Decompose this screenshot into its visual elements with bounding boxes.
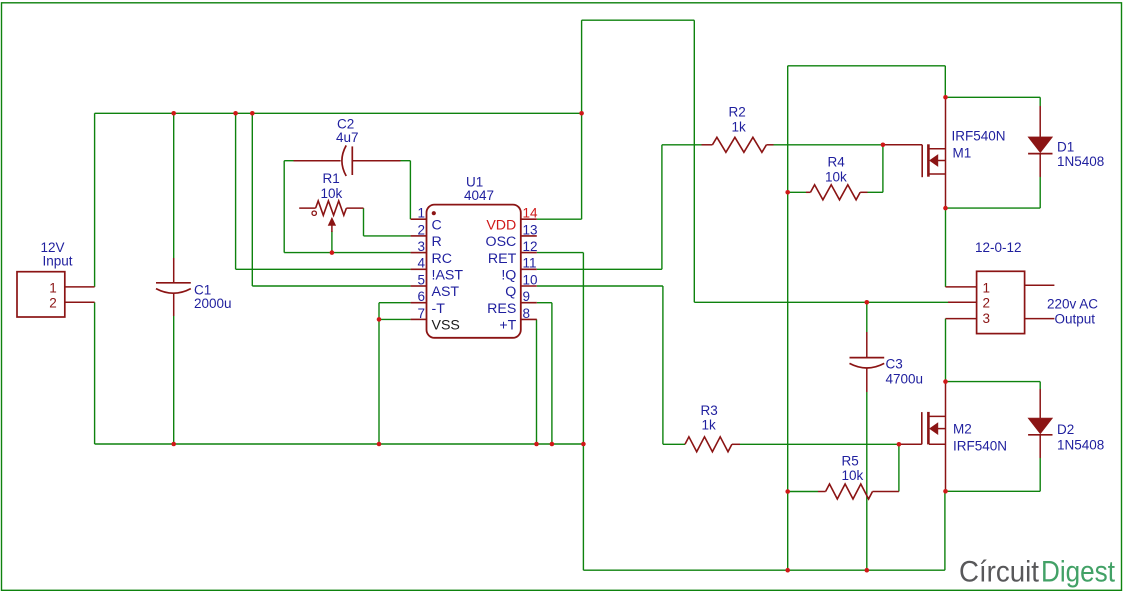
junction node J15 [943, 206, 948, 211]
svg-text:2: 2 [417, 222, 425, 237]
transistor M2 arrow [930, 423, 938, 435]
wire pin14 VDD riser [537, 218, 582, 220]
svg-text:C2: C2 [337, 116, 354, 131]
wire drain rail R4 R5 column [787, 66, 789, 570]
transistor M2 gate lead [899, 443, 922, 445]
svg-text:4: 4 [417, 256, 425, 271]
wire C1 bottom [173, 316, 175, 444]
resistor R4 right lead [860, 191, 867, 193]
connector P1 12V input box [17, 272, 65, 317]
svg-text:12: 12 [523, 239, 538, 254]
connector P1 pin 2 stub [65, 301, 95, 303]
junction node J12 [785, 190, 790, 195]
wire C3 column [866, 302, 868, 332]
wire pin7 to ground [379, 318, 411, 320]
capacitor C3 bottom lead [866, 368, 868, 392]
wire pin8 down to ground [536, 319, 538, 444]
svg-text:10: 10 [523, 272, 538, 287]
transistor M1 gate lead [883, 144, 922, 146]
pin 14 stub [521, 218, 537, 220]
resistor R5 body [826, 484, 873, 499]
diode D1 cathode lead [1039, 154, 1041, 177]
wire lower ground rail [583, 569, 945, 571]
junction node J6 [377, 317, 382, 322]
svg-text:+T: +T [499, 318, 516, 334]
wire pin4 to rail [235, 113, 237, 269]
wire C2 left loop to pin3 [284, 160, 293, 162]
wire R5 left lead [788, 491, 818, 493]
svg-text:5: 5 [417, 272, 425, 287]
svg-text:10k: 10k [825, 169, 847, 184]
junction node J19 [785, 489, 790, 494]
wire pin10 to R3 [537, 285, 663, 287]
svg-text:10k: 10k [321, 186, 343, 201]
wire transformer pin3 to M2 drain [945, 319, 947, 382]
svg-text:C: C [432, 217, 442, 233]
junction node J7 [171, 442, 176, 447]
svg-text:2: 2 [982, 296, 990, 311]
svg-text:D2: D2 [1057, 422, 1074, 437]
svg-text:OSC: OSC [486, 234, 517, 250]
svg-text:4u7: 4u7 [336, 130, 359, 145]
svg-text:-T: -T [432, 301, 446, 317]
svg-text:1: 1 [49, 280, 57, 295]
transistor M2 drain stub [929, 415, 945, 417]
wire top loop over to transformer center tap [581, 20, 583, 113]
junction node J4 [579, 111, 584, 116]
connector T1 output stub top [1025, 284, 1055, 286]
IC U1 pin1 marker [432, 211, 436, 215]
wire M1 drain top link [788, 65, 946, 67]
svg-text:M1: M1 [953, 145, 972, 160]
capacitor C2 left lead [294, 160, 341, 162]
junction node J13 [881, 143, 886, 148]
pin 8 stub [521, 318, 537, 320]
pin 2 stub [411, 235, 427, 237]
transistor M2 gate bar [921, 412, 923, 444]
resistor R5 left lead [818, 491, 826, 493]
diode D1 cathode bar [1028, 153, 1052, 155]
wire M2 source to lower rail [945, 490, 947, 492]
svg-text:8: 8 [523, 306, 531, 321]
svg-text:1N5408: 1N5408 [1057, 437, 1104, 452]
connector P1 pin 1 stub [65, 286, 95, 288]
wire D2 loop top [946, 381, 1041, 383]
potentiometer R1 left lead [299, 207, 315, 209]
junction node J14 [943, 95, 948, 100]
pin 13 stub [521, 235, 537, 237]
wire D1 loop bottom [1039, 177, 1041, 208]
junction node J1 [171, 111, 176, 116]
junction node J5 [330, 250, 335, 255]
pin 7 stub [411, 318, 427, 320]
connector T1 output stub bottom [1025, 318, 1055, 320]
wire D1 loop top [946, 96, 1041, 98]
capacitor C2 plate [351, 146, 353, 175]
wire pin9 down to ground [537, 302, 552, 304]
junction node J2 [233, 111, 238, 116]
pin 10 stub [521, 285, 537, 287]
wire R3 output to M2 gate node [740, 443, 899, 445]
pin 9 stub [521, 302, 537, 304]
junction node J8 [377, 442, 382, 447]
capacitor C1 top lead [173, 258, 175, 283]
potentiometer R1 wiper arrow [331, 225, 333, 232]
svg-text:IRF540N: IRF540N [952, 128, 1006, 143]
capacitor C3 top lead [866, 332, 868, 358]
svg-text:R4: R4 [828, 154, 846, 169]
svg-text:R: R [432, 234, 442, 250]
resistor R3 right lead [732, 443, 740, 445]
svg-text:R2: R2 [729, 105, 746, 120]
transistor M1 arrow [930, 155, 938, 167]
svg-text:IRF540N: IRF540N [953, 438, 1007, 453]
svg-text:AST: AST [432, 284, 460, 300]
diode D2 cathode bar [1028, 434, 1052, 436]
wire 12V input pin1 riser [94, 113, 96, 287]
connector T1 pin3 stub [946, 318, 977, 320]
resistor R2 left lead [702, 144, 713, 146]
wire 12V input pin2 drop [94, 302, 96, 444]
resistor R5 right lead [873, 491, 899, 493]
connector T1 12-0-12 transformer box [977, 271, 1025, 333]
potentiometer R1 terminal circle [312, 211, 316, 215]
svg-text:R1: R1 [323, 171, 340, 186]
capacitor C1 curved plate [156, 289, 191, 294]
junction node J9 [534, 442, 539, 447]
svg-text:13: 13 [523, 222, 538, 237]
junction node J16 [865, 300, 870, 305]
junction node J10 [550, 442, 555, 447]
svg-text:1k: 1k [702, 417, 717, 432]
wire pin11 to R2 [537, 268, 662, 270]
transistor M2 body line [938, 428, 945, 430]
junction node J17 [943, 379, 948, 384]
junction node J18 [897, 442, 902, 447]
svg-text:1: 1 [417, 206, 425, 221]
transistor M2 channel bar [927, 412, 930, 445]
svg-text:220v AC: 220v AC [1047, 296, 1098, 311]
svg-text:2000u: 2000u [194, 296, 232, 311]
transistor M1 gate bar [921, 145, 923, 177]
svg-text:RES: RES [487, 301, 516, 317]
svg-text:R5: R5 [842, 454, 859, 469]
IC U1 4047 body [427, 205, 521, 338]
junction node J21 [785, 568, 790, 573]
pin 5 stub [411, 285, 427, 287]
capacitor C1 bottom lead [173, 293, 175, 316]
svg-text:9: 9 [523, 289, 531, 304]
pin 1 stub [411, 218, 427, 220]
transistor M1 body line [938, 160, 945, 162]
wire pin5 to rail [251, 113, 253, 286]
resistor R4 body [811, 185, 861, 200]
svg-text:14: 14 [523, 206, 539, 221]
junction node J11 [581, 442, 586, 447]
svg-text:D1: D1 [1057, 139, 1074, 154]
diode D2 triangle [1028, 418, 1052, 434]
junction node J22 [865, 568, 870, 573]
svg-text:M2: M2 [953, 421, 972, 436]
wire R5 right riser to M2 gate node [898, 444, 900, 491]
transistor M2 drain-source lead [945, 382, 947, 492]
svg-text:3: 3 [417, 239, 425, 254]
wire +12V top rail [95, 112, 582, 114]
svg-text:1: 1 [982, 280, 990, 295]
svg-text:4047: 4047 [464, 188, 494, 203]
svg-text:VDD: VDD [486, 217, 516, 233]
svg-text:VSS: VSS [432, 318, 460, 334]
svg-text:!AST: !AST [432, 268, 464, 284]
capacitor C1 plate [156, 282, 191, 284]
svg-text:4700u: 4700u [886, 371, 924, 386]
junction node J20 [943, 489, 948, 494]
diode D1 triangle [1028, 137, 1052, 153]
wire R4 right riser to gate node [868, 191, 883, 193]
diode D2 cathode lead [1039, 435, 1041, 458]
resistor R3 body [685, 437, 732, 452]
svg-text:12-0-12: 12-0-12 [975, 240, 1022, 255]
wire R1 right to pin2 [363, 208, 365, 236]
svg-text:3: 3 [982, 311, 990, 326]
svg-text:Digest: Digest [1041, 556, 1116, 589]
wire pin12 RET down [537, 252, 584, 254]
transistor M1 source stub [929, 173, 945, 175]
wire D2 loop bottom [1039, 458, 1041, 491]
wire M1 source to transformer pin1 [945, 208, 947, 287]
resistor R4 left lead [806, 191, 811, 193]
wire ground bottom rail [95, 443, 584, 445]
capacitor C3 curved plate [850, 363, 885, 368]
connector T1 pin1 stub [946, 286, 977, 288]
pin 6 stub [411, 302, 427, 304]
potentiometer R1 body [316, 201, 347, 215]
svg-text:Círcuit: Círcuit [959, 556, 1040, 589]
transistor M2 source stub [929, 443, 945, 445]
junction node J3 [250, 111, 255, 116]
svg-text:Output: Output [1055, 312, 1096, 327]
svg-text:!Q: !Q [501, 268, 516, 284]
capacitor C2 curved plate [342, 145, 346, 176]
diode D1 anode lead [1039, 106, 1041, 137]
capacitor C3 plate [850, 357, 885, 359]
transistor M1 channel bar [927, 144, 930, 176]
potentiometer R1 right lead [346, 207, 363, 209]
svg-text:11: 11 [523, 256, 537, 271]
pin 12 stub [521, 252, 537, 254]
capacitor C2 right lead [352, 160, 400, 162]
pin 4 stub [411, 268, 427, 270]
transistor M1 drain-source lead [945, 97, 947, 208]
svg-text:1k: 1k [732, 120, 747, 135]
resistor R2 right lead [766, 144, 773, 146]
svg-text:Q: Q [505, 284, 516, 300]
connector T1 pin2 stub [948, 301, 977, 303]
wire R1 wiper to pin3 node [331, 231, 333, 253]
wire C1 top [173, 113, 175, 258]
resistor R2 body [712, 137, 766, 152]
svg-text:C3: C3 [886, 356, 903, 371]
pin 11 stub [521, 268, 537, 270]
svg-text:7: 7 [417, 306, 425, 321]
svg-text:RET: RET [488, 251, 517, 267]
transistor M1 drain stub [929, 148, 945, 150]
wire R4 left lead [788, 191, 806, 193]
diode D2 anode lead [1039, 389, 1041, 418]
wire pin6 down [379, 302, 411, 304]
wire C2 right to pin1 [401, 160, 411, 162]
svg-text:Input: Input [43, 254, 73, 269]
svg-text:2: 2 [49, 296, 57, 311]
svg-text:R3: R3 [701, 403, 718, 418]
svg-text:6: 6 [417, 289, 425, 304]
wire R2 output to M1 gate node [774, 144, 883, 146]
svg-text:RC: RC [432, 251, 453, 267]
svg-text:1N5408: 1N5408 [1057, 154, 1104, 169]
svg-text:10k: 10k [842, 468, 864, 483]
pin 3 stub [411, 252, 427, 254]
